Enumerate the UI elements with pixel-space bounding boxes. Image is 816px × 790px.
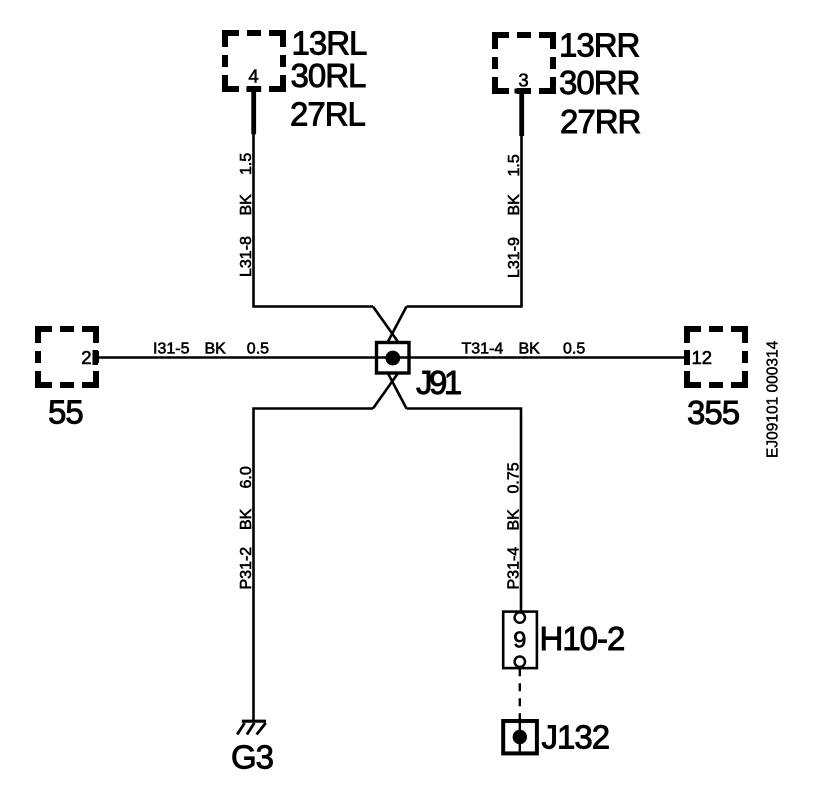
svg-text:12: 12 (692, 347, 713, 368)
svg-text:L31-8: L31-8 (238, 236, 255, 277)
svg-text:27RR: 27RR (560, 103, 641, 140)
svg-text:J91: J91 (416, 364, 461, 401)
svg-text:9: 9 (513, 627, 526, 653)
svg-text:1.5: 1.5 (238, 153, 255, 175)
svg-text:4: 4 (248, 66, 258, 87)
svg-text:BK: BK (205, 341, 227, 358)
svg-text:55: 55 (48, 394, 83, 431)
svg-text:13RL: 13RL (292, 24, 368, 61)
svg-text:L31-9: L31-9 (506, 237, 523, 278)
svg-text:P31-4: P31-4 (505, 547, 522, 590)
svg-text:BK: BK (506, 194, 523, 216)
svg-text:T31-4: T31-4 (462, 341, 504, 358)
svg-text:30RL: 30RL (291, 57, 367, 94)
svg-text:BK: BK (519, 341, 541, 358)
svg-text:355: 355 (687, 394, 739, 431)
svg-text:I31-5: I31-5 (153, 341, 190, 358)
svg-text:0.5: 0.5 (563, 341, 585, 358)
svg-text:3: 3 (518, 70, 528, 91)
svg-text:1.5: 1.5 (506, 154, 523, 176)
svg-text:0.5: 0.5 (247, 341, 269, 358)
svg-text:EJ09101 000314: EJ09101 000314 (765, 340, 782, 458)
svg-text:H10-2: H10-2 (540, 620, 625, 657)
svg-text:30RR: 30RR (559, 64, 640, 101)
svg-text:0.75: 0.75 (505, 462, 522, 493)
svg-text:2: 2 (81, 347, 91, 368)
svg-text:6.0: 6.0 (238, 466, 255, 488)
svg-text:P31-2: P31-2 (238, 547, 255, 590)
svg-text:BK: BK (238, 194, 255, 216)
svg-text:G3: G3 (231, 739, 273, 776)
svg-text:13RR: 13RR (559, 27, 640, 64)
svg-text:BK: BK (505, 509, 522, 531)
svg-text:J132: J132 (542, 719, 610, 756)
svg-text:27RL: 27RL (290, 96, 366, 133)
svg-text:BK: BK (238, 508, 255, 530)
